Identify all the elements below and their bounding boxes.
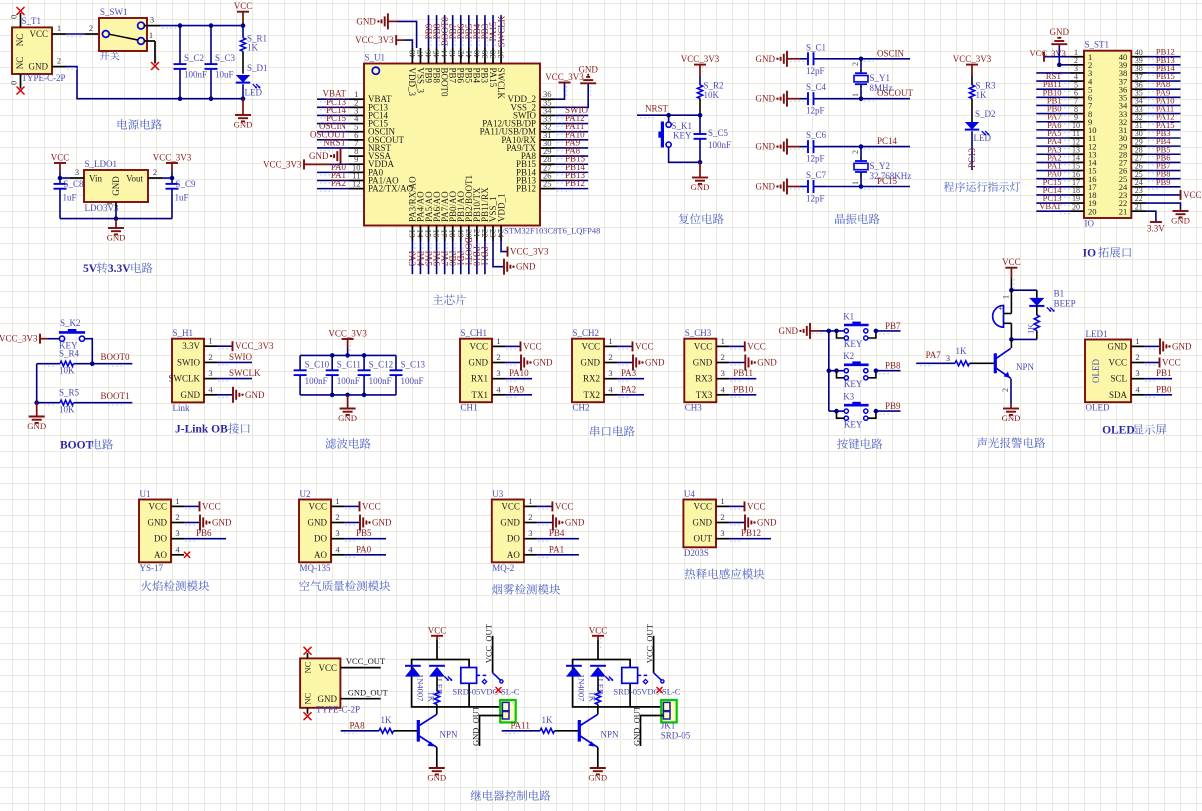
svg-text:BEEP: BEEP (1054, 299, 1076, 309)
svg-text:GND: GND (756, 94, 776, 104)
svg-text:PA1: PA1 (549, 544, 564, 554)
svg-text:DO: DO (154, 534, 167, 544)
svg-text:GND: GND (318, 694, 338, 704)
svg-text:U2: U2 (300, 489, 311, 499)
svg-text:GND: GND (1002, 413, 1021, 423)
svg-text:OSCIN: OSCIN (877, 48, 905, 58)
svg-text:+: + (999, 304, 1004, 313)
svg-text:SRD-05VDC-SL-C: SRD-05VDC-SL-C (452, 687, 519, 697)
svg-text:B1: B1 (1054, 289, 1065, 299)
svg-text:0: 0 (9, 15, 19, 19)
svg-text:100nF: 100nF (184, 70, 207, 80)
svg-text:12pF: 12pF (806, 194, 825, 204)
svg-text:GND: GND (779, 326, 799, 336)
svg-text:S_T1: S_T1 (22, 16, 42, 26)
svg-text:GND: GND (757, 358, 777, 368)
svg-text:KEY: KEY (844, 379, 863, 389)
svg-text:GND: GND (581, 358, 601, 368)
svg-text:S_R5: S_R5 (59, 388, 80, 398)
svg-text:VCC_3V3: VCC_3V3 (1030, 48, 1066, 58)
svg-text:3: 3 (528, 528, 532, 538)
svg-text:IO: IO (1083, 248, 1096, 260)
svg-text:NPN: NPN (440, 730, 459, 740)
svg-text:1N4007: 1N4007 (577, 674, 587, 701)
svg-text:K3: K3 (843, 392, 854, 402)
svg-text:S_R2: S_R2 (704, 81, 724, 91)
svg-text:K1: K1 (843, 311, 854, 321)
svg-text:GND: GND (691, 182, 710, 192)
svg-text:1: 1 (1002, 295, 1011, 299)
svg-text:12: 12 (352, 179, 361, 189)
svg-text:OLED: OLED (1091, 359, 1101, 383)
svg-text:5V: 5V (83, 263, 98, 275)
svg-text:VCC: VCC (148, 501, 167, 511)
svg-text:S_CH2: S_CH2 (573, 328, 600, 338)
svg-text:3: 3 (1135, 368, 1139, 378)
svg-text:PA2: PA2 (331, 178, 346, 188)
svg-text:VCC_3V3: VCC_3V3 (953, 54, 992, 64)
svg-text:1: 1 (496, 336, 500, 346)
svg-text:1K: 1K (542, 715, 554, 725)
svg-text:3: 3 (175, 528, 179, 538)
svg-text:PB12: PB12 (565, 178, 585, 188)
svg-text:PB12: PB12 (741, 528, 761, 538)
svg-text:1: 1 (335, 496, 339, 506)
svg-text:VCC: VCC (234, 1, 253, 11)
svg-text:100nF: 100nF (337, 376, 360, 386)
svg-text:SRD-05: SRD-05 (661, 731, 691, 741)
svg-text:VCC: VCC (1108, 358, 1127, 368)
svg-text:VCC_3V3: VCC_3V3 (510, 247, 549, 257)
svg-text:4: 4 (721, 384, 726, 394)
svg-text:MQ-135: MQ-135 (300, 563, 331, 573)
svg-text:Vin: Vin (89, 174, 102, 184)
svg-text:12pF: 12pF (806, 66, 825, 76)
svg-text:21: 21 (1119, 206, 1128, 216)
svg-text:RX3: RX3 (695, 374, 713, 384)
svg-text:1: 1 (1135, 336, 1139, 346)
svg-text:VCC: VCC (1002, 257, 1021, 267)
svg-text:GND: GND (1172, 341, 1192, 351)
svg-text:21: 21 (1135, 202, 1143, 211)
svg-text:1K: 1K (1026, 323, 1036, 334)
svg-text:D203S: D203S (684, 548, 709, 558)
svg-text:VCC: VCC (51, 153, 70, 163)
svg-text:SWCLK: SWCLK (496, 68, 506, 100)
svg-text:2: 2 (608, 352, 612, 362)
svg-text:K2: K2 (843, 351, 854, 361)
svg-text:NPN: NPN (601, 730, 620, 740)
svg-text:LED1: LED1 (1086, 329, 1108, 339)
svg-text:VCC: VCC (362, 501, 381, 511)
svg-text:PA11: PA11 (511, 720, 530, 730)
svg-text:32.768KHz: 32.768KHz (870, 171, 912, 181)
svg-text:SWCLK: SWCLK (496, 15, 506, 47)
svg-text:TX2: TX2 (584, 390, 601, 400)
svg-text:PB1: PB1 (1156, 368, 1172, 378)
svg-text:VCC: VCC (1183, 190, 1202, 200)
svg-text:CH1: CH1 (461, 403, 478, 413)
svg-text:PB4: PB4 (549, 528, 565, 538)
svg-text:BOOT1: BOOT1 (101, 391, 130, 401)
svg-text:S_R3: S_R3 (976, 81, 997, 91)
svg-text:S_C11: S_C11 (337, 360, 361, 370)
svg-text:VCC: VCC (694, 341, 713, 351)
svg-text:VCC: VCC (635, 341, 654, 351)
svg-text:GND: GND (308, 518, 328, 528)
svg-text:S_D1: S_D1 (247, 63, 268, 73)
svg-text:24: 24 (496, 229, 506, 238)
svg-text:TX1: TX1 (472, 390, 489, 400)
svg-text:TYPE-C-2P: TYPE-C-2P (316, 705, 360, 715)
svg-text:S_CH1: S_CH1 (461, 328, 488, 338)
svg-text:2: 2 (153, 167, 157, 177)
svg-text:2: 2 (851, 62, 860, 66)
svg-text:GND: GND (234, 119, 253, 129)
svg-text:RX1: RX1 (471, 374, 488, 384)
svg-text:PB10: PB10 (733, 384, 754, 394)
svg-text:1N4007: 1N4007 (416, 674, 426, 701)
svg-text:1: 1 (851, 181, 860, 185)
svg-text:1: 1 (720, 496, 724, 506)
svg-text:J-Link OB: J-Link OB (175, 424, 228, 436)
svg-text:S_K2: S_K2 (60, 318, 81, 328)
svg-text:RX2: RX2 (583, 374, 600, 384)
svg-text:S_C1: S_C1 (806, 42, 826, 52)
svg-text:VCC: VCC (29, 29, 48, 39)
svg-text:U3: U3 (492, 489, 503, 499)
svg-text:YS-17: YS-17 (140, 563, 164, 573)
svg-text:1K: 1K (247, 43, 259, 53)
svg-text:2: 2 (721, 352, 725, 362)
svg-text:NC: NC (303, 692, 313, 704)
svg-text:GND: GND (1050, 27, 1070, 37)
svg-text:NRST: NRST (645, 104, 669, 114)
svg-text:S_C12: S_C12 (369, 360, 394, 370)
svg-text:VCC_3V3: VCC_3V3 (328, 329, 367, 339)
svg-text:GND: GND (338, 413, 357, 423)
svg-text:2: 2 (175, 512, 179, 522)
svg-text:8MHz: 8MHz (870, 83, 893, 93)
svg-text:GND: GND (356, 16, 376, 26)
svg-text:GND: GND (372, 518, 392, 528)
svg-text:VBAT: VBAT (1039, 201, 1062, 211)
svg-text:VCC_3V3: VCC_3V3 (235, 341, 274, 351)
svg-text:3: 3 (721, 368, 725, 378)
svg-text:2: 2 (89, 23, 93, 33)
svg-text:VCC: VCC (693, 501, 712, 511)
svg-text:PB11: PB11 (733, 368, 753, 378)
svg-text:PA10: PA10 (509, 368, 529, 378)
svg-text:3: 3 (75, 167, 79, 177)
svg-text:CH3: CH3 (685, 403, 703, 413)
svg-text:GND: GND (578, 64, 598, 74)
svg-text:1: 1 (208, 336, 212, 346)
svg-text:VCC_3V3: VCC_3V3 (153, 153, 192, 163)
svg-text:3: 3 (720, 528, 724, 538)
svg-text:GND: GND (645, 358, 665, 368)
svg-text:SCL: SCL (1110, 374, 1127, 384)
svg-text:VDD_1: VDD_1 (496, 194, 506, 223)
svg-text:NC: NC (15, 34, 25, 47)
svg-text:10K: 10K (59, 405, 75, 415)
svg-text:GND: GND (756, 182, 776, 192)
svg-text:VCC: VCC (589, 625, 608, 635)
svg-text:2: 2 (496, 352, 500, 362)
svg-text:OUT: OUT (694, 534, 713, 544)
svg-text:3: 3 (335, 528, 339, 538)
svg-text:U4: U4 (684, 489, 695, 499)
svg-text:NRST: NRST (323, 137, 347, 147)
svg-text:S_C10: S_C10 (305, 360, 330, 370)
svg-text:2: 2 (57, 56, 61, 66)
svg-text:S_Y1: S_Y1 (870, 73, 891, 83)
svg-text:37: 37 (496, 50, 506, 59)
svg-text:GND: GND (516, 262, 536, 272)
svg-text:3: 3 (150, 15, 154, 25)
svg-text:3.3V: 3.3V (108, 263, 131, 275)
svg-text:100nF: 100nF (369, 376, 392, 386)
svg-text:BOOT: BOOT (60, 440, 94, 452)
svg-text:2: 2 (851, 150, 860, 154)
svg-text:GND: GND (245, 390, 265, 400)
svg-text:3.3V: 3.3V (182, 341, 200, 351)
svg-text:1: 1 (175, 496, 179, 506)
svg-text:S_C4: S_C4 (806, 82, 827, 92)
svg-text:SWIO: SWIO (229, 352, 252, 362)
svg-text:S_C6: S_C6 (806, 130, 827, 140)
svg-text:AO: AO (507, 550, 520, 560)
svg-text:1uF: 1uF (175, 193, 189, 203)
svg-text:VCC: VCC (581, 341, 600, 351)
svg-text:VCC: VCC (523, 341, 542, 351)
svg-text:VCC_OUT: VCC_OUT (483, 623, 493, 663)
svg-text:GND: GND (107, 232, 126, 242)
svg-text:PC14: PC14 (877, 136, 898, 146)
svg-text:1: 1 (104, 202, 114, 206)
svg-text:GND: GND (469, 358, 489, 368)
svg-text:PB0: PB0 (1156, 384, 1172, 394)
svg-text:S_C7: S_C7 (806, 170, 827, 180)
svg-text:100nF: 100nF (401, 376, 424, 386)
svg-text:KEY: KEY (844, 419, 863, 429)
svg-text:GND: GND (212, 518, 232, 528)
svg-text:STM32F103C8T6_LQFP48: STM32F103C8T6_LQFP48 (504, 226, 600, 236)
svg-text:GND: GND (588, 772, 607, 782)
svg-text:OLED: OLED (1086, 403, 1110, 413)
svg-text:LED: LED (245, 88, 263, 98)
svg-text:VCC: VCC (428, 625, 447, 635)
svg-text:VCC: VCC (308, 501, 327, 511)
svg-text:TYPE-C-2P: TYPE-C-2P (22, 73, 66, 83)
svg-text:GND: GND (565, 518, 585, 528)
svg-text:GND: GND (111, 176, 121, 196)
svg-text:10K: 10K (59, 366, 75, 376)
svg-text:GND: GND (693, 358, 713, 368)
svg-text:PA3: PA3 (621, 368, 637, 378)
svg-text:1: 1 (721, 336, 725, 346)
svg-text:1: 1 (528, 496, 532, 506)
svg-text:BOOT0: BOOT0 (101, 352, 130, 362)
svg-text:VCC_3V3: VCC_3V3 (263, 159, 302, 169)
svg-text:LED: LED (974, 133, 992, 143)
svg-text:GND_OUT: GND_OUT (631, 705, 641, 746)
svg-text:MQ-2: MQ-2 (492, 563, 514, 573)
svg-text:PA9: PA9 (509, 384, 525, 394)
svg-text:20: 20 (1088, 206, 1097, 216)
svg-text:JK1: JK1 (661, 721, 676, 731)
svg-text:DO: DO (507, 534, 520, 544)
svg-text:S_Y2: S_Y2 (870, 161, 891, 171)
svg-text:2: 2 (1135, 352, 1139, 362)
svg-text:S_U1: S_U1 (365, 53, 386, 63)
svg-text:12pF: 12pF (806, 154, 825, 164)
svg-text:1K: 1K (976, 90, 988, 100)
svg-text:GND_OUT: GND_OUT (348, 687, 389, 697)
svg-text:DO: DO (314, 534, 327, 544)
svg-text:S_C13: S_C13 (401, 360, 426, 370)
svg-text:10uF: 10uF (215, 70, 234, 80)
svg-text:GND: GND (756, 142, 776, 152)
svg-text:12pF: 12pF (806, 106, 825, 116)
svg-text:VCC: VCC (469, 341, 488, 351)
svg-text:S_ST1: S_ST1 (1085, 40, 1110, 50)
svg-text:PC13: PC13 (967, 147, 977, 168)
svg-text:100nF: 100nF (708, 140, 731, 150)
svg-text:1: 1 (608, 336, 612, 346)
svg-text:PA8: PA8 (350, 720, 366, 730)
svg-text:PB9: PB9 (1156, 177, 1171, 187)
svg-text:TX3: TX3 (696, 390, 713, 400)
svg-text:S_H1: S_H1 (173, 328, 194, 338)
svg-text:VCC_3V3: VCC_3V3 (681, 54, 720, 64)
svg-text:1uF: 1uF (63, 193, 77, 203)
svg-text:1K: 1K (381, 715, 393, 725)
svg-text:1K: 1K (588, 692, 598, 703)
svg-text:Link: Link (173, 403, 190, 413)
svg-text:1K: 1K (956, 346, 968, 356)
svg-text:PB8: PB8 (885, 361, 901, 371)
svg-text:GND: GND (1108, 341, 1128, 351)
svg-text:VCC: VCC (747, 501, 766, 511)
svg-text:S_C2: S_C2 (184, 53, 204, 63)
svg-text:SWCLK: SWCLK (229, 368, 261, 378)
svg-text:GND: GND (148, 518, 168, 528)
svg-text:S_D2: S_D2 (975, 109, 996, 119)
svg-text:2: 2 (720, 512, 724, 522)
svg-text:PB12: PB12 (516, 184, 536, 194)
svg-text:100nF: 100nF (305, 376, 328, 386)
svg-text:GND: GND (533, 358, 553, 368)
svg-text:VCC: VCC (318, 663, 337, 673)
svg-text:GND: GND (181, 390, 201, 400)
svg-text:OLED: OLED (1102, 425, 1135, 437)
svg-text:1: 1 (149, 30, 153, 40)
svg-text:10K: 10K (704, 90, 720, 100)
svg-text:GND_OUT: GND_OUT (470, 705, 480, 746)
svg-text:CH2: CH2 (573, 403, 590, 413)
svg-text:AO: AO (314, 550, 327, 560)
svg-text:GND: GND (27, 421, 46, 431)
svg-text:2: 2 (528, 512, 532, 522)
svg-text:S_C9: S_C9 (176, 179, 197, 189)
svg-text:S_SW1: S_SW1 (100, 7, 128, 17)
svg-text:GND: GND (427, 772, 446, 782)
svg-text:NC: NC (303, 661, 313, 673)
svg-text:PB6: PB6 (196, 528, 212, 538)
svg-text:2: 2 (335, 512, 339, 522)
svg-text:NC: NC (15, 57, 25, 70)
svg-text:GND: GND (693, 518, 713, 528)
svg-text:VCC_3V3: VCC_3V3 (355, 35, 394, 45)
svg-text:2: 2 (1001, 388, 1010, 392)
svg-text:VCC: VCC (1162, 358, 1181, 368)
svg-text:NPN: NPN (1016, 362, 1035, 372)
svg-text:SRD-05VDC-SL-C: SRD-05VDC-SL-C (613, 687, 680, 697)
svg-text:PA7: PA7 (926, 350, 942, 360)
svg-text:GND: GND (309, 151, 329, 161)
svg-text:S_LDO1: S_LDO1 (85, 159, 118, 169)
svg-text:1: 1 (851, 93, 860, 97)
svg-text:VCC: VCC (555, 501, 574, 511)
svg-text:20: 20 (1072, 202, 1080, 211)
svg-text:3: 3 (608, 368, 612, 378)
svg-text:KEY: KEY (844, 339, 863, 349)
svg-text:SDA: SDA (1109, 390, 1128, 400)
svg-text:GND: GND (1171, 215, 1190, 225)
svg-text:GND: GND (500, 518, 520, 528)
svg-text:KEY: KEY (673, 131, 692, 141)
svg-text:3: 3 (946, 354, 950, 363)
svg-text:2: 2 (208, 352, 212, 362)
svg-text:S_C5: S_C5 (708, 128, 729, 138)
svg-text:VCC: VCC (747, 341, 766, 351)
svg-text:0: 0 (9, 81, 19, 85)
svg-text:S_C3: S_C3 (215, 53, 236, 63)
svg-text:VCC_3V3: VCC_3V3 (0, 334, 38, 344)
svg-text:VCC_OUT: VCC_OUT (644, 623, 654, 663)
svg-text:PB11: PB11 (480, 246, 490, 266)
svg-text:AO: AO (154, 550, 167, 560)
svg-text:3: 3 (208, 368, 212, 378)
svg-text:4: 4 (528, 544, 533, 554)
svg-text:U1: U1 (140, 489, 151, 499)
svg-text:VCC_OUT: VCC_OUT (346, 656, 386, 666)
svg-text:VCC: VCC (501, 501, 520, 511)
svg-text:S_C8: S_C8 (64, 179, 85, 189)
svg-text:GND: GND (29, 62, 49, 72)
svg-text:PA0: PA0 (356, 544, 372, 554)
svg-text:PB9: PB9 (885, 401, 901, 411)
svg-text:S_R4: S_R4 (59, 349, 80, 359)
svg-text:25: 25 (543, 179, 552, 189)
svg-text:1: 1 (57, 23, 61, 33)
svg-text:S_CH3: S_CH3 (685, 328, 712, 338)
svg-text:VCC: VCC (202, 501, 221, 511)
svg-text:SWIO: SWIO (177, 357, 200, 367)
svg-text:GND: GND (757, 518, 777, 528)
svg-text:S_K1: S_K1 (672, 121, 693, 131)
svg-text:3.3V: 3.3V (1147, 224, 1165, 234)
svg-text:1K: 1K (427, 692, 437, 703)
svg-text:IO: IO (1085, 219, 1095, 229)
svg-text:GND: GND (756, 54, 776, 64)
svg-text:SWCLK: SWCLK (169, 374, 201, 384)
svg-text:Vout: Vout (126, 174, 143, 184)
svg-text:PB7: PB7 (885, 321, 901, 331)
svg-text:PA2: PA2 (621, 384, 636, 394)
svg-text:3: 3 (496, 368, 500, 378)
